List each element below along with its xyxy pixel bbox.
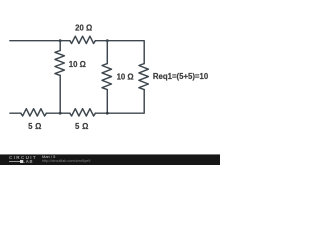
svg-text:5 Ω: 5 Ω [75,122,89,131]
wire: top-left input segment [10,40,60,42]
wire: top-right segment with corner down to Req1 [107,41,144,64]
wire: from R 10ohm left down to node C [59,75,61,113]
wire: lead from node A down to R 10ohm left [59,41,61,51]
node D junction dot (bottom-middle) [106,112,109,115]
footer logo CIRCUIT [9,156,37,161]
resistor 5ohm (bottom-right horizontal) [70,109,96,116]
svg-text:10 Ω: 10 Ω [69,60,86,69]
wire: bottom-left input segment [10,112,21,114]
footer logo wire line left [9,161,20,162]
footer url text [42,160,90,164]
node A junction dot (top-left) [59,39,62,42]
svg-text:20 Ω: 20 Ω [75,24,92,33]
svg-text:5 Ω: 5 Ω [28,122,42,131]
footer watermark bar [0,154,220,165]
svg-text:10 Ω: 10 Ω [117,72,134,81]
footer title text [42,155,55,159]
resistor 5ohm (bottom-left horizontal) [21,109,47,116]
wire: from R 10ohm middle down to node D [106,90,108,114]
resistor 20ohm (top horizontal) [70,36,96,43]
wire: lead from R 5ohm left to node C [46,112,60,114]
wire: lead from node C to R 5ohm right [60,112,70,114]
resistor 10ohm (left vertical) [55,51,65,76]
footer logo node square [20,160,23,163]
svg-text:Req1=(5+5)=10: Req1=(5+5)=10 [153,72,209,81]
node C junction dot (bottom-left) [59,112,62,115]
footer logo LAB [23,160,34,164]
wire: lead from node A to R 20ohm [60,40,70,42]
wire: bottom-right segment from Req1 with corner to node D [107,90,144,114]
wire: lead from node B down to R 10ohm middle [106,41,108,64]
resistor 10ohm (middle vertical) [102,64,112,90]
node B junction dot (top-middle) [106,39,109,42]
wire: lead from R 20ohm to node B [95,40,107,42]
resistor Req1 (right vertical) [139,64,149,90]
wire: lead from R 5ohm right to node D [95,112,107,114]
